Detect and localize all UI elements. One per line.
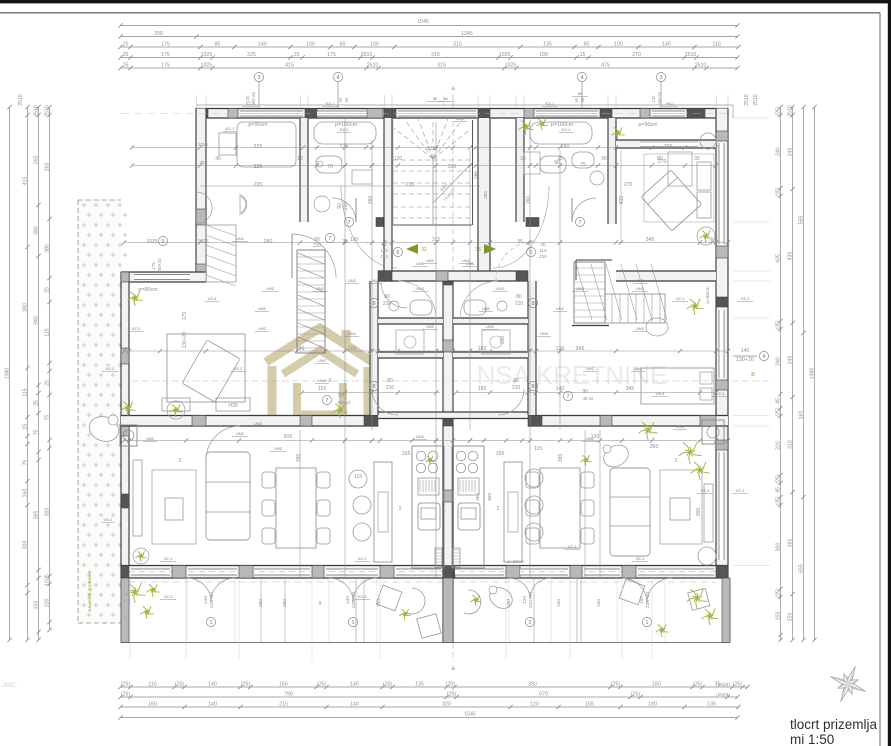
svg-text:UN2: UN2 <box>274 446 283 451</box>
svg-text:6: 6 <box>329 378 332 384</box>
svg-text:(25): (25) <box>631 692 640 698</box>
svg-text:3: 3 <box>660 75 663 81</box>
svg-text:VZ-1: VZ-1 <box>676 296 685 301</box>
svg-text:240: 240 <box>775 357 781 366</box>
svg-text:60: 60 <box>444 96 449 101</box>
wall bedroom right top <box>616 140 716 148</box>
svg-text:45: 45 <box>775 398 781 404</box>
svg-text:90: 90 <box>601 156 607 162</box>
svg-text:150: 150 <box>376 599 382 607</box>
svg-text:(25)(9): (25)(9) <box>716 692 730 697</box>
svg-text:390: 390 <box>528 682 537 688</box>
roof overhang line right <box>732 105 734 118</box>
lm bed <box>167 334 245 402</box>
lm plant circ <box>120 401 185 419</box>
svg-text:UN2: UN2 <box>318 378 327 383</box>
ll rug table <box>152 470 196 544</box>
bath3 tub <box>530 122 592 144</box>
corner X marks <box>121 109 728 579</box>
svg-text:270: 270 <box>632 52 641 58</box>
svg-text:33: 33 <box>475 247 481 253</box>
terrace right stub <box>722 578 730 643</box>
right dim chain 4 <box>809 105 816 642</box>
wc inner wall right2 <box>453 352 528 358</box>
svg-text:VZ-1: VZ-1 <box>164 594 173 599</box>
svg-text:25: 25 <box>33 400 39 406</box>
svg-text:4: 4 <box>763 354 766 360</box>
svg-text:175: 175 <box>182 312 188 321</box>
top overall dim 1545 <box>118 19 739 28</box>
section line b <box>92 380 770 382</box>
hall door arc right <box>496 241 536 281</box>
svg-text:p=90cm: p=90cm <box>638 122 658 128</box>
top dim row 200/1345 <box>118 31 739 39</box>
svg-text:VZ-2: VZ-2 <box>106 366 115 371</box>
svg-text:266: 266 <box>473 171 478 179</box>
svg-text:(25): (25) <box>121 682 130 688</box>
svg-text:110: 110 <box>712 42 720 48</box>
bedroom door arc lr <box>206 426 240 460</box>
svg-text:JMC-: JMC- <box>2 682 18 689</box>
svg-text:1025: 1025 <box>198 142 208 147</box>
wc right basin circle <box>497 301 507 311</box>
wall right bath divider <box>516 118 524 222</box>
ws left shower <box>396 330 424 354</box>
svg-text:225: 225 <box>254 144 263 150</box>
svg-text:3: 3 <box>258 75 261 81</box>
component tags 2 <box>143 116 687 442</box>
ul door arc 1 <box>332 198 356 222</box>
svg-text:a: a <box>451 85 455 92</box>
svg-text:315: 315 <box>453 42 462 48</box>
ur bedroom platform <box>644 154 714 222</box>
bath1 vanity <box>237 122 296 167</box>
svg-text:60: 60 <box>574 97 579 102</box>
svg-text:380: 380 <box>44 244 50 253</box>
svg-text:140: 140 <box>350 682 359 688</box>
svg-text:280: 280 <box>264 239 273 245</box>
svg-text:25: 25 <box>44 380 50 386</box>
svg-text:VB-4: VB-4 <box>656 391 666 396</box>
ws right shower <box>482 330 510 354</box>
svg-text:UN2: UN2 <box>482 306 491 311</box>
wc zone right wall <box>528 281 536 415</box>
window bottom wall <box>455 569 504 576</box>
terrace door right 2 <box>622 578 672 627</box>
window right wall <box>719 452 725 560</box>
svg-text:VZ-1: VZ-1 <box>716 391 725 396</box>
left tree blob <box>86 413 122 446</box>
svg-text:p=90cm: p=90cm <box>138 287 158 293</box>
svg-text:1: 1 <box>352 620 355 626</box>
label 110-210 <box>380 242 388 259</box>
right black bar <box>888 0 891 746</box>
svg-text:35: 35 <box>200 160 205 165</box>
svg-text:8: 8 <box>532 301 535 307</box>
svg-text:1545: 1545 <box>417 19 429 25</box>
rl bar stools <box>525 469 543 541</box>
top dim row layers <box>118 52 739 60</box>
svg-text:365: 365 <box>33 511 39 520</box>
dims 365 centre <box>475 493 493 501</box>
svg-text:670: 670 <box>539 692 548 698</box>
svg-text:365: 365 <box>558 454 564 463</box>
svg-text:300: 300 <box>44 508 50 517</box>
svg-text:155: 155 <box>585 702 594 708</box>
rl plant small2 <box>639 422 658 440</box>
circ8 c <box>369 378 394 391</box>
section line a <box>452 94 454 662</box>
svg-text:180: 180 <box>652 682 661 688</box>
svg-text:60: 60 <box>580 97 585 102</box>
ur wardrobe 2 <box>697 192 711 218</box>
wc inner wall right <box>453 318 528 324</box>
terrace door left 2 <box>329 578 377 627</box>
svg-text:VZ-1: VZ-1 <box>568 544 577 549</box>
svg-text:310: 310 <box>787 440 793 449</box>
svg-text:150: 150 <box>787 613 793 622</box>
corridor door arc <box>292 234 336 278</box>
green arrow left <box>406 244 418 254</box>
svg-text:p=90cm: p=90cm <box>248 122 268 128</box>
hall arc left <box>341 186 397 268</box>
svg-text:80: 80 <box>384 294 390 300</box>
svg-text:160: 160 <box>148 702 157 708</box>
svg-text:3: 3 <box>179 458 182 464</box>
window bottom wall <box>638 569 714 576</box>
window bottom wall <box>326 569 378 576</box>
svg-text:4: 4 <box>581 75 584 81</box>
wc left basin circle <box>389 301 399 311</box>
wall h3 right <box>528 416 728 427</box>
wall h3 right piers <box>528 416 716 427</box>
svg-text:UN2: UN2 <box>634 366 643 371</box>
svg-text:150: 150 <box>33 601 39 610</box>
terrace outline <box>121 578 730 643</box>
svg-text:VZ-1: VZ-1 <box>358 556 367 561</box>
svg-text:9: 9 <box>319 601 322 607</box>
svg-text:210: 210 <box>386 385 395 391</box>
svg-text:210: 210 <box>313 243 322 249</box>
window top wall <box>240 111 303 117</box>
svg-text:140: 140 <box>350 702 359 708</box>
wall h3 left piers <box>192 416 378 427</box>
svg-text:75: 75 <box>22 460 28 466</box>
svg-text:383: 383 <box>483 191 488 199</box>
ur bedroom bed diagonal <box>641 170 702 231</box>
svg-text:130+20: 130+20 <box>182 331 188 348</box>
svg-text:UN2: UN2 <box>258 306 267 311</box>
svg-text:7: 7 <box>579 220 582 226</box>
svg-text:VZ-1: VZ-1 <box>736 488 745 493</box>
top dim row layers2 <box>118 63 739 71</box>
svg-text:UN1: UN1 <box>236 236 245 241</box>
bottom dim row 2 <box>118 692 739 700</box>
svg-text:365: 365 <box>787 539 793 548</box>
ul small dims <box>198 142 208 165</box>
svg-text:UN2: UN2 <box>348 278 357 283</box>
svg-text:VZ-1: VZ-1 <box>741 296 750 301</box>
svg-text:(25): (25) <box>775 407 781 416</box>
svg-text:UN2: UN2 <box>586 366 595 371</box>
bath2 tub <box>314 122 376 144</box>
svg-text:90: 90 <box>338 393 344 399</box>
bottom overall dim 1545 <box>118 712 739 720</box>
terrace left wall stub <box>121 578 129 643</box>
svg-text:35: 35 <box>520 156 526 162</box>
bath3 circle <box>590 171 604 185</box>
svg-text:220+20: 220+20 <box>209 592 215 608</box>
svg-text:H30: H30 <box>228 403 237 409</box>
rl sofa <box>610 468 650 556</box>
svg-text:35: 35 <box>694 156 700 162</box>
terrace door left 1 <box>187 578 235 627</box>
window right wall <box>719 143 725 244</box>
svg-text:60: 60 <box>578 91 583 96</box>
ll circled plant <box>133 548 149 564</box>
top axis circle 3b <box>656 72 665 108</box>
svg-text:2510: 2510 <box>361 52 373 58</box>
bath1 washbasin <box>219 133 236 155</box>
svg-text:UN2: UN2 <box>316 286 325 291</box>
svg-text:VB-1: VB-1 <box>666 101 676 106</box>
ws circles <box>404 336 502 348</box>
internal dimension network <box>122 118 730 642</box>
entry arc left unit <box>398 281 436 319</box>
svg-text:240: 240 <box>787 148 793 157</box>
wc inner wall left <box>378 318 443 324</box>
svg-text:6: 6 <box>397 250 400 256</box>
green arrow right <box>484 244 496 254</box>
svg-text:2510: 2510 <box>18 94 24 106</box>
top black bar <box>0 0 891 3</box>
rl plant big1 <box>679 442 702 464</box>
circ8 b <box>515 294 538 308</box>
svg-text:1025: 1025 <box>499 52 511 58</box>
ur wardrobe 1 <box>697 162 711 190</box>
window top wall <box>536 111 598 117</box>
top dim row detail <box>118 42 740 50</box>
svg-text:VZ-4: VZ-4 <box>701 488 710 493</box>
svg-text:265: 265 <box>33 156 39 165</box>
window top wall <box>398 111 476 117</box>
top wall piers <box>196 109 728 119</box>
circ7 b <box>325 233 334 242</box>
kitchen right <box>452 446 484 568</box>
rl dining table <box>540 468 580 548</box>
svg-text:susjedne građevine: susjedne građevine <box>87 570 93 612</box>
svg-text:UN2: UN2 <box>348 331 357 336</box>
rm fireplace <box>702 420 724 444</box>
svg-text:UN2: UN2 <box>496 286 505 291</box>
svg-text:475: 475 <box>601 63 610 69</box>
wall h3 left <box>121 416 378 427</box>
svg-text:mi 1:50: mi 1:50 <box>790 732 834 746</box>
svg-text:210: 210 <box>383 301 392 307</box>
circ6 b <box>526 247 535 256</box>
svg-text:25: 25 <box>22 424 28 430</box>
svg-text:435: 435 <box>775 254 781 263</box>
svg-text:135: 135 <box>543 42 552 48</box>
svg-text:80: 80 <box>513 378 519 384</box>
svg-text:180: 180 <box>648 702 657 708</box>
lm nightstand <box>162 398 190 411</box>
svg-text:100: 100 <box>306 42 315 48</box>
svg-text:90: 90 <box>582 389 588 395</box>
svg-text:1380: 1380 <box>4 368 10 380</box>
bottom outer wall <box>121 566 728 579</box>
party wall <box>443 271 453 642</box>
svg-text:80: 80 <box>516 294 522 300</box>
svg-text:VZ-1: VZ-1 <box>636 556 645 561</box>
svg-text:(25): (25) <box>121 692 130 698</box>
svg-text:175: 175 <box>161 52 170 58</box>
svg-text:320: 320 <box>442 702 451 708</box>
bottom wall piers <box>121 566 728 579</box>
svg-text:60: 60 <box>584 42 590 48</box>
svg-text:4b 10: 4b 10 <box>583 396 594 401</box>
svg-text:380: 380 <box>22 303 28 312</box>
svg-text:100: 100 <box>370 42 379 48</box>
svg-text:415: 415 <box>22 177 28 186</box>
left wall piers <box>121 272 129 578</box>
wall h3 center <box>378 412 528 419</box>
svg-text:75: 75 <box>44 415 50 421</box>
svg-text:225: 225 <box>254 164 263 170</box>
parapet window p=90cm <box>134 274 190 280</box>
svg-text:UN2: UN2 <box>236 431 245 436</box>
svg-text:NSA KRETNINE: NSA KRETNINE <box>477 360 668 390</box>
svg-text:UN2: UN2 <box>636 278 645 283</box>
ll tv console <box>133 460 142 536</box>
label 110-210 b <box>539 242 547 259</box>
top axis circle 3 <box>254 72 263 108</box>
wc left door arc <box>381 282 407 308</box>
left dim chain innermost <box>44 105 51 632</box>
svg-text:790: 790 <box>284 692 293 698</box>
svg-text:15: 15 <box>297 156 303 162</box>
svg-text:130+20: 130+20 <box>157 258 162 274</box>
mid wall h2 center piers <box>378 271 528 281</box>
svg-text:1: 1 <box>210 620 213 626</box>
svg-text:2510: 2510 <box>744 94 750 106</box>
svg-text:UN2: UN2 <box>576 286 585 291</box>
wc2 toilet <box>316 156 342 173</box>
svg-text:UN2: UN2 <box>636 326 645 331</box>
stair bottom wall r <box>572 325 609 327</box>
svg-text:120: 120 <box>530 702 539 708</box>
svg-text:2510: 2510 <box>753 94 759 106</box>
ll dining table <box>276 468 316 548</box>
svg-text:(25): (25) <box>775 106 781 115</box>
kitchen left <box>412 446 444 568</box>
svg-text:225: 225 <box>247 52 256 58</box>
window bottom wall <box>584 569 620 576</box>
svg-text:315: 315 <box>448 164 457 170</box>
circ7 vest left <box>322 393 351 405</box>
hatch tag <box>101 517 115 523</box>
left top rotated labels <box>18 94 24 106</box>
svg-text:415: 415 <box>285 63 294 69</box>
svg-text:1545: 1545 <box>464 712 476 718</box>
rl tv console <box>704 484 713 542</box>
svg-text:240: 240 <box>787 356 793 365</box>
svg-text:130+20: 130+20 <box>657 91 662 106</box>
svg-text:345: 345 <box>626 386 635 392</box>
svg-text:(25): (25) <box>775 496 781 505</box>
window bottom wall <box>396 569 441 576</box>
svg-text:(20): (20) <box>446 682 455 688</box>
bath2 shower circ <box>314 196 330 212</box>
right unit stair <box>574 262 667 323</box>
svg-text:155: 155 <box>496 451 505 457</box>
hatched neighbour parcel <box>78 200 127 623</box>
bath3 sink <box>524 152 540 174</box>
svg-text:2510: 2510 <box>367 63 379 69</box>
svg-text:80: 80 <box>657 156 663 162</box>
svg-text:1025: 1025 <box>197 239 208 245</box>
svg-text:UN2: UN2 <box>146 436 155 441</box>
svg-text:435: 435 <box>619 196 625 205</box>
rl kidney chair <box>600 441 633 471</box>
rm armchair <box>646 318 668 336</box>
svg-text:183: 183 <box>478 386 487 392</box>
svg-text:60: 60 <box>344 97 349 102</box>
rl plant small <box>580 455 591 466</box>
terrace plants left <box>125 583 160 619</box>
svg-text:35: 35 <box>517 239 523 245</box>
svg-text:115: 115 <box>44 328 50 336</box>
svg-text:UN2: UN2 <box>416 434 425 439</box>
svg-text:25: 25 <box>123 52 129 58</box>
lm plant2 <box>332 404 347 419</box>
svg-text:1: 1 <box>646 620 649 626</box>
svg-text:165: 165 <box>279 682 288 688</box>
vestibule step right <box>576 260 612 280</box>
ll sofa <box>206 452 250 540</box>
rl chairs <box>526 472 594 544</box>
entry arc right unit <box>460 281 498 319</box>
ll chairs <box>262 472 330 544</box>
watermark house logo <box>266 328 374 415</box>
ur plant loose <box>687 299 704 315</box>
svg-text:15: 15 <box>580 52 586 58</box>
svg-text:60: 60 <box>338 97 343 102</box>
svg-text:265: 265 <box>44 163 50 172</box>
bath4 cab <box>668 152 692 186</box>
svg-text:1025: 1025 <box>146 239 157 245</box>
svg-text:7: 7 <box>567 394 570 400</box>
wc3 toilet <box>540 156 566 173</box>
rm bed <box>641 368 714 404</box>
svg-text:140: 140 <box>208 682 217 688</box>
svg-text:4: 4 <box>337 75 340 81</box>
window axis dashes <box>121 113 728 115</box>
circ8 d <box>512 378 538 391</box>
svg-text:tlocrt prizemlja: tlocrt prizemlja <box>790 717 878 732</box>
svg-text:UN2: UN2 <box>258 326 267 331</box>
terrace overhang dash <box>129 581 716 583</box>
svg-text:365: 365 <box>296 454 302 463</box>
svg-text:505: 505 <box>284 434 293 440</box>
left dim chain outer <box>4 105 11 642</box>
svg-text:p=90cm: p=90cm <box>705 286 711 303</box>
svg-text:(25): (25) <box>611 682 620 688</box>
svg-text:(25): (25) <box>383 682 392 688</box>
svg-text:345: 345 <box>646 237 655 243</box>
svg-text:175: 175 <box>161 63 170 69</box>
svg-text:175: 175 <box>161 42 170 48</box>
